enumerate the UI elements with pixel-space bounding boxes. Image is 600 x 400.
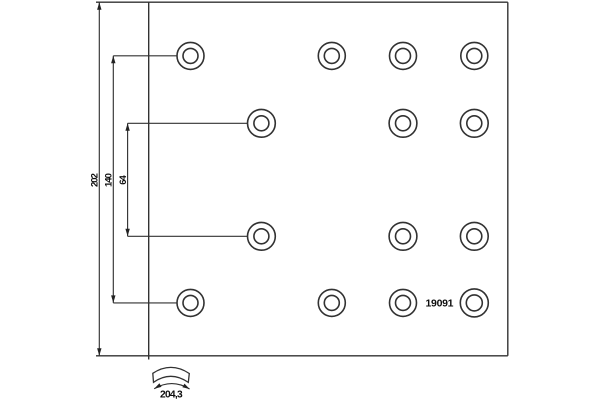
hole row4 col1 (177, 289, 204, 316)
leader line row 3 (128, 235, 248, 237)
leader line row 1 (113, 55, 177, 57)
dimension line 202 (98, 2, 100, 356)
hole row1 col3 (318, 42, 345, 69)
hole row2 col2 (248, 109, 276, 137)
part outline top edge (96, 1, 508, 3)
dimension line 64 (127, 123, 129, 236)
hole row4 col4 (390, 289, 417, 316)
hole row3 col5 (460, 222, 488, 250)
hole row2 col4 (389, 109, 417, 137)
hole row4 col5 (460, 289, 488, 317)
svg-text:140: 140 (104, 173, 115, 187)
part outline left edge (148, 2, 150, 359)
arrow 202 top (97, 2, 101, 10)
arrow 64 bottom (125, 229, 129, 237)
hole row1 col5 (461, 42, 488, 69)
svg-text:19091: 19091 (426, 297, 454, 309)
hole row1 col1 (177, 42, 204, 69)
svg-text:202: 202 (90, 173, 101, 187)
arrow 140 bottom (111, 295, 115, 303)
arrow 64 top (125, 123, 129, 131)
dimension line 140 (112, 56, 114, 303)
part outline bottom edge (96, 355, 508, 357)
lining cross-section band symbol (153, 367, 190, 382)
hole row1 col4 (390, 42, 417, 69)
leader line row 4 (113, 302, 177, 304)
hole row4 col3 (318, 289, 345, 316)
part outline right edge (507, 2, 509, 356)
hole row3 col2 (248, 222, 276, 250)
arrow 140 top (111, 56, 115, 64)
svg-text:204,3: 204,3 (160, 390, 183, 400)
arc-length dimension arc (154, 384, 189, 389)
arrow 202 bottom (97, 348, 101, 356)
arc dimension arrow right (182, 384, 189, 389)
leader line row 2 (128, 122, 248, 124)
hole row2 col5 (460, 109, 488, 137)
hole row3 col4 (389, 222, 417, 250)
arc dimension arrow left (154, 383, 161, 389)
